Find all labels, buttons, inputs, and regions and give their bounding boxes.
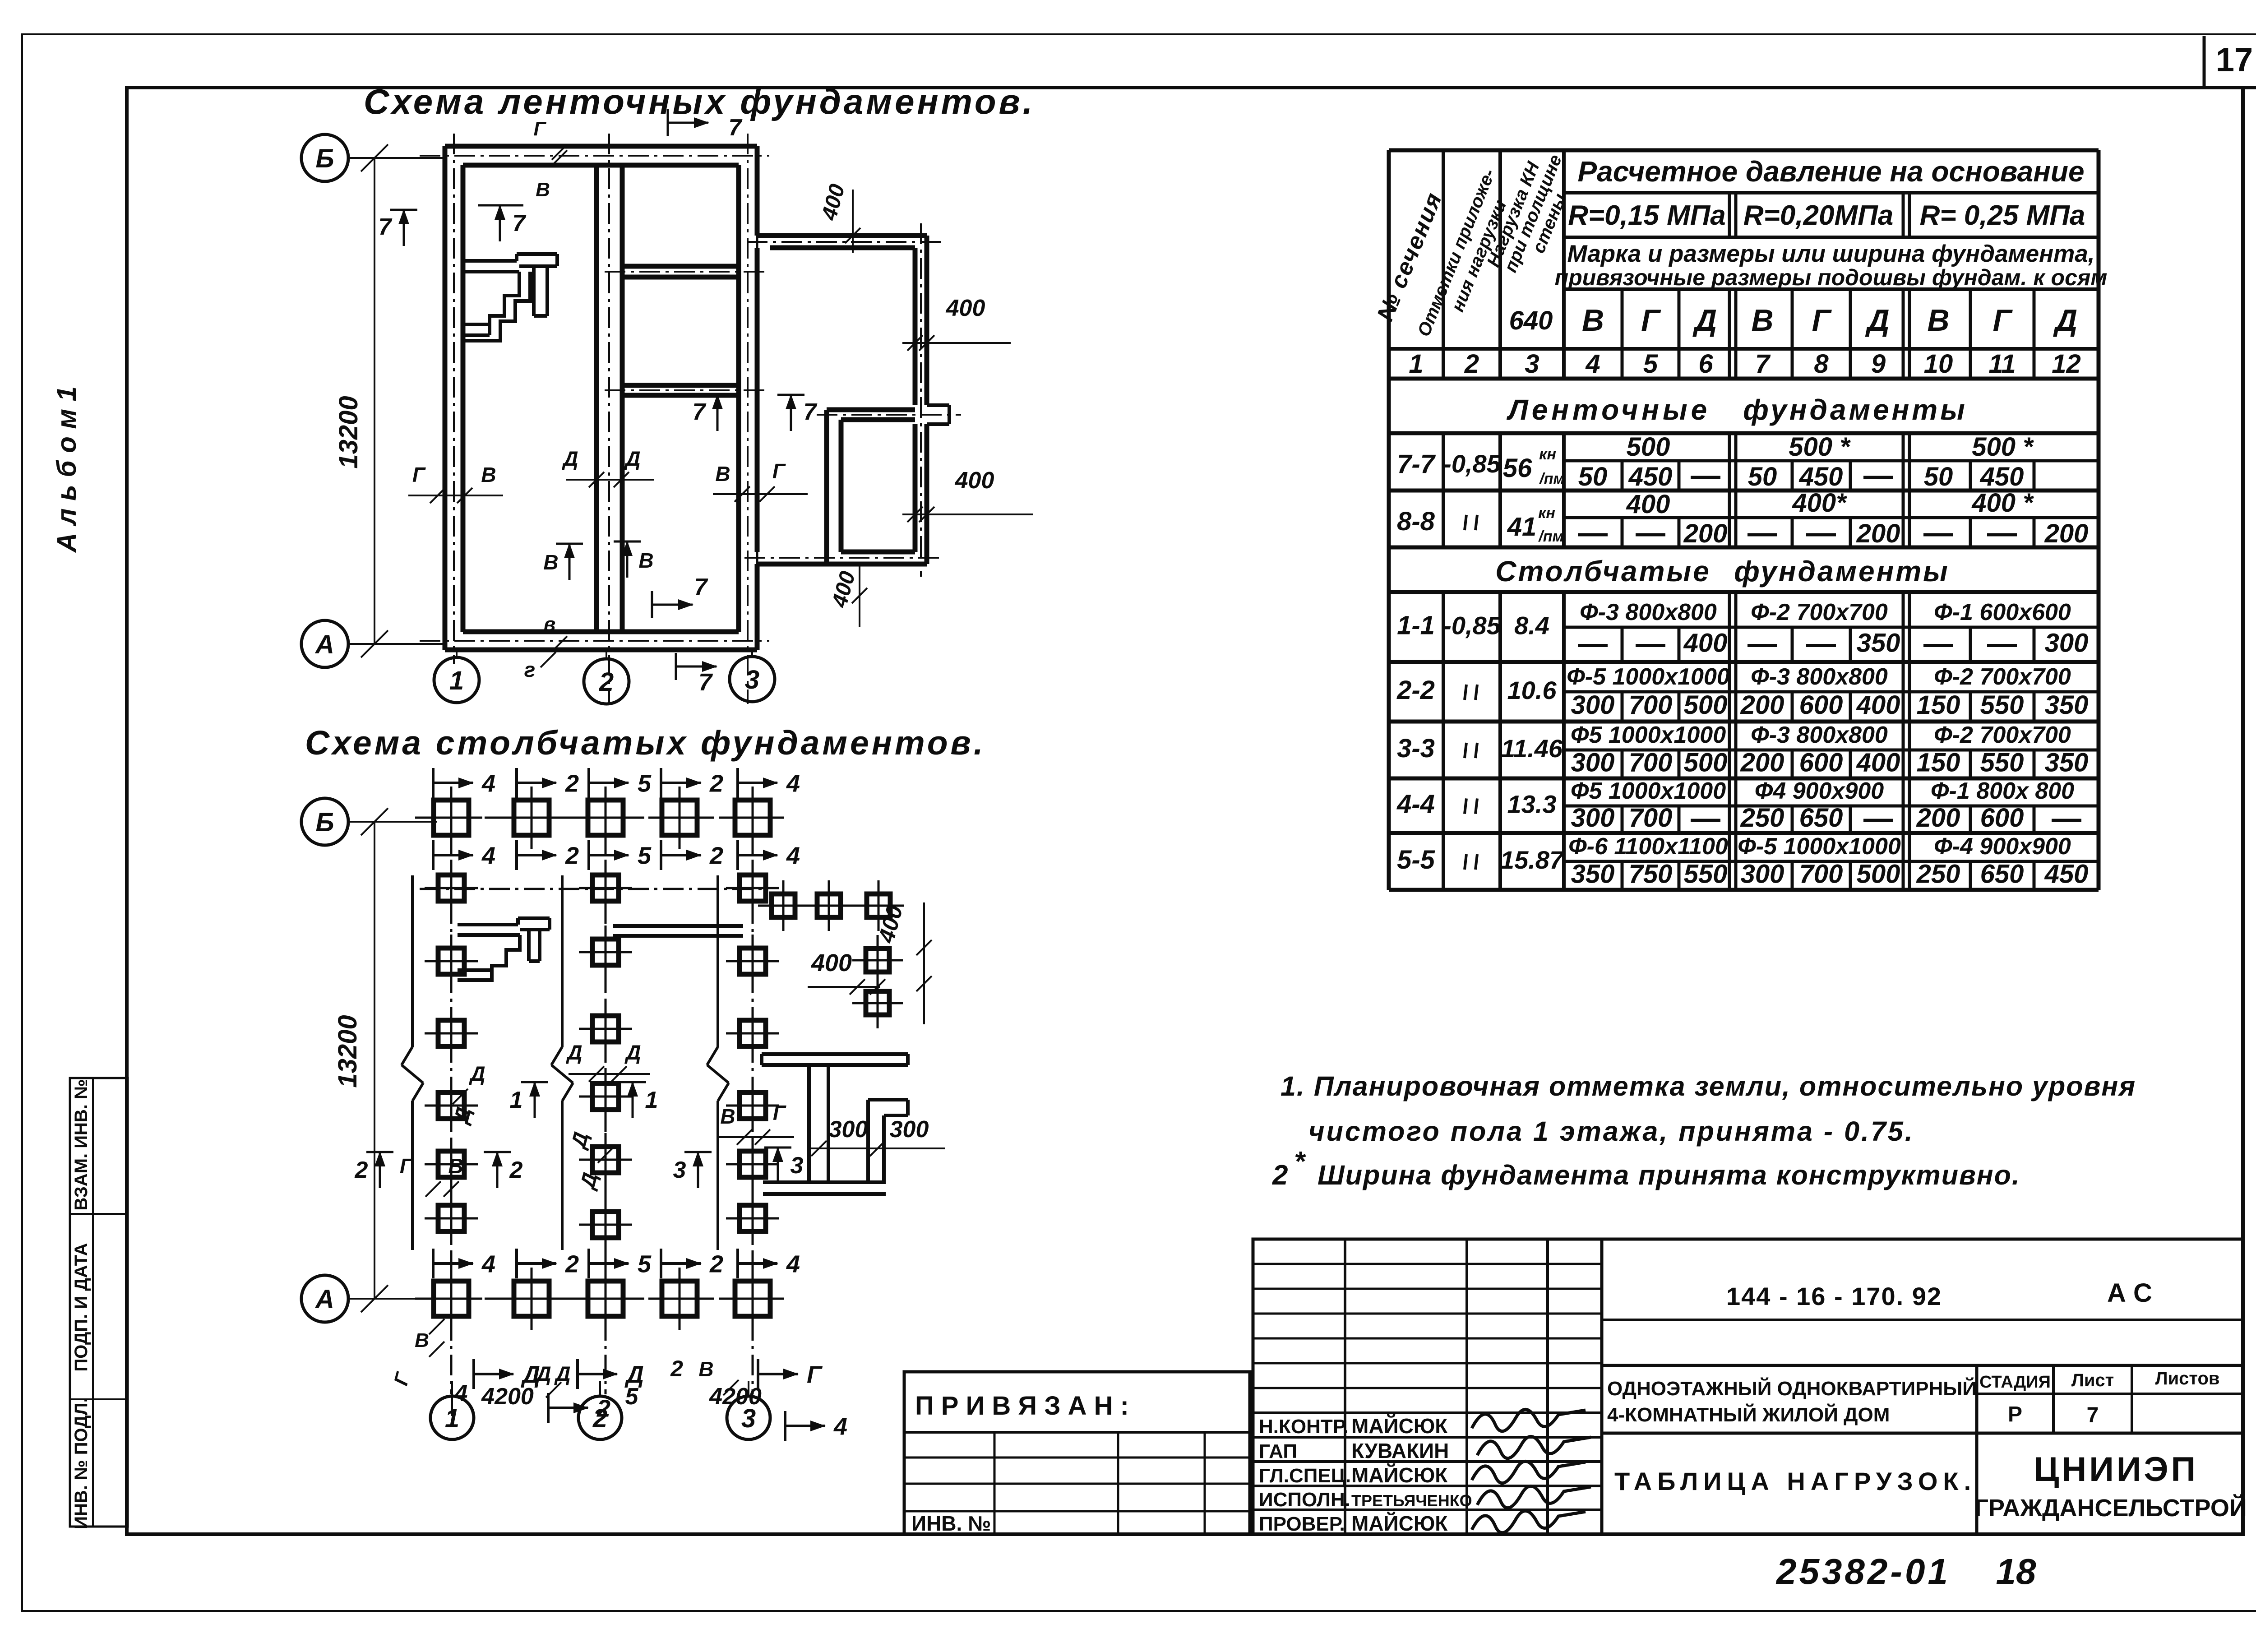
plan1 mark 7 bottom room (652, 574, 708, 618)
svg-text:Г: Г (1641, 303, 1661, 338)
svg-text:1: 1 (645, 1087, 658, 1113)
label inv n podl (71, 1397, 91, 1529)
svg-text:550: 550 (1980, 690, 2024, 720)
svg-text:Ф-2 700х700: Ф-2 700х700 (1934, 664, 2071, 690)
svg-text:ВЗАМ. ИНВ. №: ВЗАМ. ИНВ. № (71, 1079, 91, 1210)
svg-text:Ф-3 800х800: Ф-3 800х800 (1580, 599, 1717, 625)
plan2 dim 400 horizontal (808, 949, 885, 995)
plan1 staircase (463, 254, 557, 341)
svg-text:1: 1 (1409, 349, 1423, 379)
band stolbchatye fundamenty (1495, 555, 1950, 588)
svg-text:2: 2 (565, 770, 579, 797)
svg-text:7: 7 (693, 399, 707, 425)
plan2 centrelines (415, 799, 898, 1394)
svg-text:450: 450 (1799, 462, 1843, 491)
letters row (1582, 303, 2077, 338)
svg-text:50: 50 (1924, 462, 1953, 491)
svg-text:15.87: 15.87 (1500, 846, 1565, 874)
svg-text:350: 350 (2045, 690, 2089, 720)
svg-text:чистого пола 1 этажа, принята: чистого пола 1 этажа, принята - 0.75. (1308, 1116, 1914, 1147)
svg-text:2: 2 (565, 1250, 579, 1277)
svg-text:5: 5 (625, 1384, 639, 1410)
svg-text:Ф-1 600х600: Ф-1 600х600 (1934, 599, 2071, 625)
svg-text:7: 7 (729, 115, 743, 141)
plan2 marks d axis1 (448, 1062, 485, 1127)
svg-text:650: 650 (1799, 803, 1843, 833)
svg-text:7: 7 (698, 669, 713, 696)
svg-text:500 *: 500 * (1972, 432, 2034, 462)
plan1 centrelines (420, 134, 961, 704)
svg-text:Ф-3 800х800: Ф-3 800х800 (1751, 664, 1888, 690)
table header rascetnoe davlenie (1577, 155, 2084, 188)
signature squiggles (1472, 1409, 1591, 1532)
plan2 dims below row B (433, 840, 800, 870)
svg-text:200: 200 (1740, 690, 1784, 720)
svg-text:Д: Д (624, 1041, 641, 1064)
svg-text:1. Планировочная отметка земли: 1. Планировочная отметка земли, относите… (1281, 1071, 2136, 1101)
svg-text:В: В (1927, 303, 1949, 338)
svg-text:Расчетное давление на основани: Расчетное давление на основание (1577, 155, 2084, 188)
sheet number box 17 (2204, 36, 2256, 88)
svg-text:500: 500 (1684, 690, 1728, 720)
svg-text:200: 200 (1683, 519, 1728, 548)
svg-text:1: 1 (510, 1087, 523, 1113)
svg-text:ГЛ.СПЕЦ.: ГЛ.СПЕЦ. (1259, 1465, 1351, 1487)
svg-text:Ф-2 700х700: Ф-2 700х700 (1934, 722, 2071, 748)
svg-text:Д: Д (624, 447, 640, 470)
svg-text:Н.КОНТР.: Н.КОНТР. (1259, 1416, 1349, 1438)
svg-text:ЦНИИЭП: ЦНИИЭП (2034, 1450, 2198, 1489)
table header R values (1568, 200, 2085, 231)
svg-text:350: 350 (2045, 748, 2089, 777)
svg-text:200: 200 (1856, 519, 1900, 548)
svg-text:П Р И В Я З А Н :: П Р И В Я З А Н : (915, 1391, 1129, 1421)
plan2 marks d axis2 lower (566, 1129, 613, 1192)
svg-text:В: В (415, 1329, 429, 1351)
plan1 dimension 13200 (334, 144, 388, 657)
note line 1 (1281, 1071, 2136, 1101)
plan2 squares row A (420, 1268, 784, 1330)
svg-text:МАЙСЮК: МАЙСЮК (1351, 1414, 1448, 1438)
axis circle 2 (584, 650, 629, 704)
svg-text:7: 7 (804, 399, 818, 425)
svg-text:*: * (1294, 1146, 1306, 1177)
svg-text:Ф5 1000х1000: Ф5 1000х1000 (1571, 722, 1726, 748)
plan2 squares column 3 (726, 861, 779, 1245)
svg-text:25382-01: 25382-01 (1775, 1551, 1951, 1592)
svg-text:500: 500 (1857, 860, 1900, 889)
svg-text:МАЙСЮК: МАЙСЮК (1351, 1512, 1448, 1535)
svg-text:400: 400 (1683, 629, 1728, 658)
svg-text:ИНВ. № ПОДЛ.: ИНВ. № ПОДЛ. (71, 1397, 91, 1529)
svg-text:В: В (536, 179, 550, 201)
note line 3 (1272, 1146, 2020, 1191)
plan2 dims above row B (433, 768, 800, 798)
label vzam inv (71, 1079, 91, 1210)
plan2 section marks 1 (510, 1081, 658, 1118)
plan2 axis circle 2 (578, 1381, 622, 1439)
svg-text:250: 250 (1916, 860, 1960, 889)
svg-text:Ширина фундамента принята конс: Ширина фундамента принята конструктивно. (1318, 1160, 2020, 1190)
svg-text:7: 7 (379, 214, 393, 240)
svg-text:4: 4 (481, 770, 495, 797)
svg-text:2: 2 (709, 842, 723, 869)
svg-text:750: 750 (1629, 860, 1673, 889)
svg-text:4-4: 4-4 (1396, 790, 1435, 819)
svg-text:300: 300 (829, 1116, 868, 1143)
svg-text:Марка и размеры или ширина фун: Марка и размеры или ширина фундамента, (1567, 241, 2095, 267)
svg-text:А л ь б о м 1: А л ь б о м 1 (51, 386, 82, 553)
plan 2 title (305, 724, 986, 762)
svg-text:6: 6 (1698, 349, 1713, 379)
plan1 mark g bottom (524, 652, 556, 681)
rotated header nomer secheniya (1372, 189, 1447, 324)
plan2 dim 400 vertical (873, 902, 932, 1024)
svg-text:2: 2 (599, 667, 614, 697)
svg-text:Ф-6 1100х1100: Ф-6 1100х1100 (1568, 833, 1728, 860)
row 2-2 data (1396, 664, 2088, 720)
signature rows text (1259, 1414, 1472, 1535)
plan2 squares top-right cluster (758, 880, 904, 1028)
svg-text:В: В (1582, 303, 1604, 338)
plan1 dim 400 ext bottom (828, 564, 867, 627)
svg-text:3: 3 (1525, 349, 1539, 379)
svg-text:10: 10 (1924, 349, 1953, 379)
svg-text:/пм: /пм (1539, 470, 1564, 487)
svg-text:11: 11 (1988, 349, 2016, 379)
project title block frame (1602, 1239, 2243, 1534)
plan1 middle wall axis2 (596, 165, 622, 632)
plan2 break lines (402, 875, 729, 1250)
svg-text:2: 2 (565, 842, 579, 869)
sheet title (1614, 1467, 1976, 1495)
svg-text:/пм: /пм (1538, 528, 1563, 545)
svg-text:450: 450 (1628, 462, 1673, 491)
svg-text:144 - 16 - 170. 92: 144 - 16 - 170. 92 (1726, 1282, 1942, 1310)
svg-text:200: 200 (1740, 748, 1784, 777)
svg-text:в: в (544, 613, 556, 635)
svg-text:4: 4 (481, 842, 495, 869)
svg-text:600: 600 (1799, 690, 1843, 720)
plan2 mark v bottom axis (390, 1319, 444, 1388)
svg-text:700: 700 (1629, 803, 1673, 833)
svg-text:250: 250 (1740, 803, 1784, 833)
svg-text:г: г (524, 658, 536, 681)
title block pривязан frame (904, 1372, 1250, 1534)
svg-text:R=0,20МПа: R=0,20МПа (1743, 200, 1893, 231)
svg-text:2: 2 (355, 1157, 368, 1183)
svg-text:Г: Г (807, 1361, 823, 1388)
svg-text:ТРЕТЬЯЧЕНКО: ТРЕТЬЯЧЕНКО (1351, 1491, 1472, 1510)
svg-text:Г: Г (412, 463, 426, 486)
plan2 axis circle B (301, 798, 437, 845)
svg-text:400*: 400* (1792, 488, 1847, 518)
svg-text:11.46: 11.46 (1501, 734, 1563, 763)
plan2 bottom dims 4200 (452, 1380, 847, 1441)
axis circle 3 (730, 650, 775, 702)
svg-text:Ф-4 900х900: Ф-4 900х900 (1934, 833, 2071, 860)
label inv no bottom (911, 1512, 991, 1535)
plan2 section marks 2 (355, 1151, 523, 1188)
svg-text:4: 4 (1585, 349, 1600, 379)
axis circle 1 (434, 650, 479, 703)
svg-text:8-8: 8-8 (1397, 507, 1435, 536)
svg-text:450: 450 (1980, 462, 2024, 491)
svg-text:1: 1 (449, 666, 464, 695)
svg-text:4: 4 (454, 1380, 468, 1407)
svg-text:150: 150 (1917, 690, 1960, 720)
svg-text:В: В (481, 463, 496, 486)
svg-text:1-1: 1-1 (1397, 611, 1435, 640)
object name line 1 (1607, 1377, 1977, 1400)
svg-text:Ф-3 800х800: Ф-3 800х800 (1751, 722, 1888, 748)
stadia values (2008, 1402, 2099, 1427)
svg-text:18: 18 (1996, 1551, 2036, 1592)
svg-text:Ф-1 800х 800: Ф-1 800х 800 (1931, 778, 2074, 804)
svg-text:МАЙСЮК: МАЙСЮК (1351, 1463, 1448, 1487)
svg-text:350: 350 (1571, 860, 1615, 889)
svg-text:В: В (1751, 303, 1773, 338)
svg-text:700: 700 (1629, 748, 1673, 777)
svg-text:13200: 13200 (333, 1015, 362, 1087)
svg-text:Г: Г (772, 459, 786, 483)
svg-text:300: 300 (890, 1116, 929, 1143)
svg-text:Д: Д (534, 1362, 551, 1385)
svg-text:Ф-5 1000х1000: Ф-5 1000х1000 (1567, 664, 1730, 690)
svg-text:500: 500 (1684, 748, 1728, 777)
plan2 section marks 3 (673, 1147, 804, 1188)
svg-text:4: 4 (786, 842, 800, 869)
svg-text:7: 7 (2087, 1403, 2099, 1427)
album label (51, 386, 82, 553)
plan1 dim 400 ext top (817, 181, 884, 253)
svg-text:ГАП: ГАП (1259, 1440, 1297, 1462)
row 5-5 data (1397, 833, 2088, 889)
svg-text:Д: Д (1865, 303, 1889, 338)
svg-text:Д: Д (2053, 303, 2077, 338)
plan2 marks v g axis3 (717, 1101, 794, 1145)
svg-text:400: 400 (946, 295, 985, 321)
svg-text:Схема ленточных фундаментов.: Схема ленточных фундаментов. (364, 82, 1035, 121)
row 3-3 data (1397, 722, 2088, 777)
plan2 axis circle 1 (430, 1381, 474, 1439)
svg-text:50: 50 (1748, 462, 1777, 491)
organization name (1974, 1450, 2247, 1522)
svg-text:Д: Д (468, 1062, 485, 1085)
svg-text:300: 300 (1741, 860, 1784, 889)
svg-text:8.4: 8.4 (1514, 611, 1549, 640)
svg-text:Столбчатые: Столбчатые (1495, 555, 1711, 588)
svg-text:Схема столбчатых фундаментов.: Схема столбчатых фундаментов. (305, 724, 986, 762)
svg-text:Г: Г (400, 1154, 413, 1178)
plan1 room divider walls (622, 266, 739, 395)
svg-text:-0,85: -0,85 (1443, 449, 1501, 478)
svg-text:7: 7 (513, 210, 527, 236)
svg-text:300: 300 (1571, 748, 1615, 777)
svg-text:17: 17 (2216, 41, 2253, 79)
axis circle A (301, 620, 445, 667)
svg-text:4-КОМНАТНЫЙ ЖИЛОЙ ДОМ: 4-КОМНАТНЫЙ ЖИЛОЙ ДОМ (1607, 1403, 1890, 1426)
plan1 dim 400 ext mid (902, 467, 1033, 522)
svg-text:13.3: 13.3 (1507, 790, 1557, 819)
plan2 wall segment (613, 926, 743, 936)
plan1 mark 7 below (676, 653, 717, 696)
svg-text:В: В (448, 1154, 463, 1178)
plan1 section mark 7 top-left (379, 209, 417, 246)
svg-text:3: 3 (791, 1152, 804, 1179)
svg-text:5: 5 (638, 842, 652, 869)
plan2 axis circle A (301, 1275, 437, 1322)
svg-text:600: 600 (1799, 748, 1843, 777)
svg-text:450: 450 (2044, 860, 2089, 889)
svg-text:А С: А С (2107, 1278, 2152, 1308)
svg-text:9: 9 (1871, 349, 1886, 379)
svg-text:Ф-5 1000х1000: Ф-5 1000х1000 (1738, 833, 1901, 860)
svg-text:400: 400 (1856, 748, 1900, 777)
svg-text:600: 600 (1980, 803, 2024, 833)
svg-text:41: 41 (1507, 512, 1537, 541)
signature table frame (1253, 1239, 1602, 1534)
svg-text:7-7: 7-7 (1397, 449, 1436, 479)
svg-text:В: В (698, 1357, 713, 1381)
plan1 mark v bottom wall (544, 613, 567, 652)
svg-text:500 *: 500 * (1789, 432, 1851, 462)
svg-text:650: 650 (1980, 860, 2024, 889)
svg-text:2: 2 (670, 1356, 683, 1381)
svg-text:В: В (720, 1105, 735, 1128)
plan1 marks v v bottom rooms (543, 541, 653, 580)
svg-text:Б: Б (315, 144, 334, 173)
svg-text:2: 2 (509, 1157, 523, 1183)
svg-text:4: 4 (786, 770, 800, 797)
svg-text:-0,85: -0,85 (1443, 611, 1501, 640)
svg-text:700: 700 (1799, 860, 1843, 889)
doc type AC (2107, 1278, 2152, 1308)
svg-text:Д: Д (1692, 303, 1717, 338)
svg-text:Д: Д (554, 1362, 570, 1385)
plan1 mark 7 top-right (668, 109, 743, 141)
plan 1 title (364, 82, 1035, 121)
svg-text:Д: Д (565, 1041, 582, 1064)
svg-text:350: 350 (1857, 629, 1900, 658)
plan1 dim 400 ext right (902, 295, 1011, 351)
row 8-8 data (1397, 488, 2088, 548)
row 7-7 data (1397, 432, 2034, 491)
axis circle B (301, 134, 445, 181)
svg-text:7: 7 (1755, 349, 1771, 379)
svg-text:Б: Б (315, 808, 334, 837)
plan1 right extension walls (757, 236, 949, 564)
svg-text:Ф5 1000х1000: Ф5 1000х1000 (1571, 778, 1726, 804)
svg-text:А: А (314, 1285, 334, 1314)
svg-text:400: 400 (955, 467, 994, 494)
svg-text:8: 8 (1814, 349, 1829, 379)
svg-text:КУВАКИН: КУВАКИН (1351, 1439, 1449, 1462)
svg-text:2: 2 (709, 770, 723, 797)
svg-text:640: 640 (1509, 306, 1553, 335)
svg-text:300: 300 (1571, 690, 1615, 720)
svg-text:500: 500 (1627, 432, 1670, 462)
svg-text:4: 4 (833, 1413, 847, 1440)
svg-text:550: 550 (1684, 860, 1728, 889)
label privyazan (915, 1391, 1129, 1421)
svg-text:Ф-2 700х700: Ф-2 700х700 (1751, 599, 1888, 625)
svg-text:ТАБЛИЦА НАГРУЗОК.: ТАБЛИЦА НАГРУЗОК. (1614, 1467, 1976, 1495)
svg-text:3-3: 3-3 (1397, 734, 1435, 763)
svg-text:ИСПОЛН.: ИСПОЛН. (1259, 1489, 1350, 1511)
svg-text:Ф4 900х900: Ф4 900х900 (1755, 778, 1884, 804)
doc number (1726, 1282, 1942, 1310)
svg-text:4200: 4200 (481, 1384, 534, 1410)
svg-text:12: 12 (2052, 349, 2081, 379)
header cell 640 (1509, 306, 1553, 335)
svg-text:5-5: 5-5 (1397, 845, 1435, 875)
svg-text:400 *: 400 * (1971, 488, 2034, 518)
plan1 mark g top (533, 118, 567, 160)
svg-text:ОДНОЭТАЖНЫЙ ОДНОКВАРТИРНЫЙ: ОДНОЭТАЖНЫЙ ОДНОКВАРТИРНЫЙ (1607, 1377, 1977, 1400)
plan2 dimension 13200 (333, 808, 388, 1312)
svg-text:кн: кн (1538, 504, 1555, 522)
plan2 squares column 1 (425, 861, 478, 1245)
svg-text:300: 300 (1571, 803, 1615, 833)
plan2 stair footprint (458, 918, 550, 980)
svg-text:фундаменты: фундаменты (1743, 393, 1968, 426)
stadia list listov header (1979, 1369, 2219, 1392)
plan2 marks g v bottom left (400, 1154, 463, 1197)
svg-text:2: 2 (596, 1395, 610, 1422)
svg-text:В: В (638, 549, 653, 572)
svg-text:700: 700 (1629, 690, 1673, 720)
svg-text:5: 5 (638, 770, 652, 797)
svg-text:10.6: 10.6 (1507, 676, 1557, 704)
svg-text:400: 400 (1626, 490, 1670, 519)
svg-text:СТАДИЯ: СТАДИЯ (1979, 1373, 2051, 1392)
svg-text:Листов: Листов (2155, 1369, 2220, 1388)
label podp i data (71, 1243, 91, 1372)
svg-text:ПОДП. И ДАТА: ПОДП. И ДАТА (71, 1243, 91, 1372)
plan2 marks d d axis2 (565, 1041, 650, 1082)
svg-text:400: 400 (811, 949, 852, 976)
svg-text:R=0,15 МПа: R=0,15 МПа (1568, 200, 1726, 231)
svg-text:4: 4 (786, 1250, 800, 1277)
svg-text:13200: 13200 (334, 396, 363, 468)
svg-text:7: 7 (694, 574, 708, 600)
svg-text:В: В (543, 551, 558, 574)
svg-text:Лист: Лист (2071, 1370, 2114, 1390)
plan1 section mark 7 room1 (478, 204, 527, 241)
svg-text:5: 5 (638, 1250, 652, 1277)
svg-text:4200: 4200 (709, 1384, 762, 1410)
plan1 marks 7 in extension (693, 394, 818, 431)
svg-text:200: 200 (1916, 803, 1960, 833)
svg-text:привязочные размеры подошвы фу: привязочные размеры подошвы фундам. к ос… (1555, 265, 2108, 290)
plan1 marks d d axis2 (561, 447, 654, 487)
svg-text:400: 400 (1856, 690, 1900, 720)
svg-text:ИНВ. №: ИНВ. № (911, 1512, 991, 1535)
svg-text:2-2: 2-2 (1396, 676, 1435, 705)
svg-text:R= 0,25 МПа: R= 0,25 МПа (1920, 200, 2085, 231)
rotated header otmetki prilozheniya (1414, 166, 1510, 339)
row 4-4 data (1396, 778, 2081, 833)
plan2 bottom labels (474, 1356, 823, 1397)
plan2 dims 300 300 (808, 1116, 945, 1156)
plan2 axis circle 3 (727, 1381, 770, 1439)
svg-text:300: 300 (2045, 629, 2089, 658)
plan1 marks v g axis3 (713, 459, 808, 502)
row 1-1 data (1397, 599, 2088, 658)
svg-text:50: 50 (1578, 462, 1608, 491)
table header marka i razmery (1555, 241, 2108, 290)
